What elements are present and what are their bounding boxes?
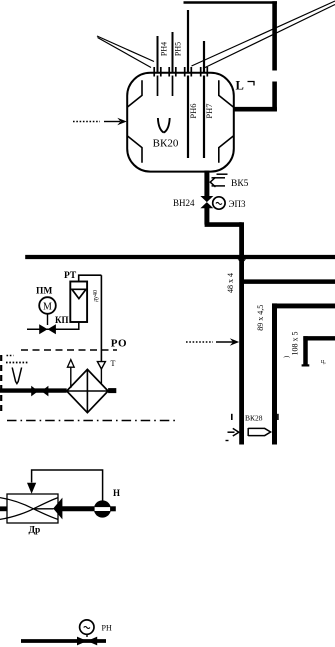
funnel tiny label [6, 362, 29, 364]
svg-text:РН7: РН7 [204, 103, 214, 118]
actuator circle [80, 620, 94, 634]
svg-text:РТ: РТ [64, 271, 77, 281]
svg-text:89 х 4,5: 89 х 4,5 [256, 305, 265, 331]
vent arrow on riser A [228, 431, 235, 433]
strainer screen triangle [72, 289, 86, 298]
pipe tank outlet [204, 171, 209, 197]
tank corner wedge top-left [128, 80, 143, 107]
wire thick right riser upper [272, 1, 277, 70]
air vent VK28 [248, 428, 270, 436]
pipe RN4 riser [157, 36, 159, 73]
makeup inlet dotted label [73, 121, 100, 123]
valve VN24 [200, 196, 213, 208]
svg-text:Др: Др [29, 526, 41, 536]
throttle inlet arrow [53, 498, 62, 520]
svg-text:М: М [43, 301, 52, 312]
pipe pump stub [110, 506, 116, 511]
svg-text:ВН24: ВН24 [173, 198, 195, 208]
svg-text:ду40: ду40 [93, 290, 99, 302]
wire strainer bottom stub [78, 322, 80, 330]
header H3 [272, 303, 335, 308]
bottom pipe [21, 639, 106, 643]
small dash below [226, 440, 229, 442]
strainer RT body [70, 282, 87, 323]
wire regulator drop line [100, 275, 102, 361]
wire thick right riser lower [272, 82, 277, 112]
tank corner wedge bottom-right [219, 136, 234, 163]
wire motor stem [47, 314, 49, 325]
tick on riser B [277, 414, 279, 420]
header H4 108x5 [303, 336, 335, 340]
wire leader line to RN4 (a) [97, 36, 154, 62]
boundary dashed left [0, 355, 2, 413]
wire strainer top stub [79, 275, 102, 281]
motor M [39, 297, 56, 314]
regulator arrow into elevator [97, 362, 105, 369]
wire leader line to RN6 (c) [192, 1, 335, 66]
svg-text:ВК5: ВК5 [231, 179, 249, 189]
wire KP pipe [27, 328, 79, 330]
makeup inlet arrow [104, 121, 120, 123]
tick on riser A [231, 414, 233, 420]
elevator body [67, 369, 108, 412]
pipe RN6 riser [187, 10, 189, 73]
pipe stub C [303, 336, 308, 364]
bypass line over throttle [32, 470, 103, 501]
svg-text:L: L [236, 79, 244, 93]
wire top header line [184, 1, 278, 4]
wire thick elbow to tank [234, 107, 277, 112]
pipe pump to throttle [62, 506, 94, 511]
vent arrow up [70, 367, 72, 388]
tank corner wedge top-right [219, 80, 234, 107]
svg-text:РН5: РН5 [174, 42, 183, 56]
pipe out of elevator [108, 388, 116, 393]
boundary dash-dot bottom [7, 420, 178, 422]
flange ticks on tank top [154, 67, 207, 77]
bypass arrow into throttle [27, 483, 36, 494]
pipe RN5 riser [172, 32, 174, 73]
main header H1 [25, 255, 335, 259]
header H2 from riser A [243, 279, 335, 284]
svg-text:ЭП3: ЭП3 [229, 199, 246, 209]
svg-text:108 х 5: 108 х 5 [290, 332, 299, 356]
svg-text:РН4: РН4 [160, 42, 169, 56]
svg-text:ВК28: ВК28 [245, 414, 263, 423]
dotted label to riser A [186, 341, 213, 343]
valve RN bottom [77, 637, 97, 646]
valve on supply [31, 386, 48, 397]
pipe RN7 riser [203, 41, 205, 73]
throttle Dr body [7, 494, 58, 523]
vent mark V inside tank [158, 118, 170, 133]
svg-text:ВК20: ВК20 [153, 138, 179, 150]
svg-text:РО: РО [111, 338, 127, 350]
pipe into elevator [0, 388, 67, 392]
tank corner wedge bottom-left [128, 136, 143, 163]
svg-text:Т: Т [111, 359, 116, 368]
valve KP [39, 324, 56, 334]
pump N [94, 500, 111, 517]
wire leader line to RN7 (d) [203, 5, 335, 69]
svg-text:ц,: ц, [321, 359, 326, 365]
tank VK20 [127, 73, 234, 172]
svg-text:Н: Н [113, 488, 120, 498]
pipe riser B 89x4.5 [272, 303, 277, 444]
RO dashed boundary top [21, 349, 117, 351]
pipe elbow to riser A [205, 222, 242, 227]
svg-text:48 х 4: 48 х 4 [226, 273, 235, 293]
actuator EP3 [213, 197, 225, 209]
junction tail at H1 [238, 259, 246, 264]
pipe riser A 48x4 [239, 222, 244, 444]
air vent VK5 [210, 174, 227, 187]
drain funnel [12, 368, 21, 384]
svg-text:РН6: РН6 [188, 103, 198, 118]
wire leader line to RN4 (b) [98, 38, 152, 68]
throttle venturi [0, 498, 58, 520]
svg-text:КП: КП [55, 315, 69, 325]
svg-text:РН: РН [102, 624, 112, 633]
svg-text:ПМ: ПМ [36, 287, 52, 297]
